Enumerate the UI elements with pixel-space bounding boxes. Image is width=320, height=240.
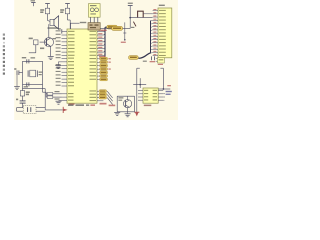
wire to U2 pin — [130, 17, 152, 19]
U2 designator — [159, 5, 165, 6]
power flag red bottom — [134, 112, 139, 116]
red text under serial — [100, 103, 107, 105]
wire rst top — [23, 88, 46, 90]
capacitor C3 electrolytic — [16, 99, 26, 108]
wire base down — [29, 45, 36, 53]
small part right — [158, 58, 165, 65]
IC U2 body — [158, 8, 172, 58]
speaker LS1 — [48, 16, 59, 29]
vertical caption text — [3, 34, 5, 75]
cap C1 gnd stub — [14, 68, 22, 89]
U3 right hooks — [163, 94, 165, 100]
wire U3 left power — [136, 85, 138, 113]
U2 pins — [153, 9, 166, 56]
bus ribbon curve — [138, 53, 150, 58]
resistor R1 — [40, 8, 49, 14]
wire xtal left — [22, 61, 24, 84]
wire xtal top — [23, 60, 43, 62]
wire drop B — [160, 68, 163, 89]
cap at U1 top-left — [59, 28, 62, 33]
U3 right pins — [153, 90, 164, 101]
power flag VCC1 — [31, 0, 36, 6]
component loop — [138, 11, 144, 17]
bus net label — [107, 25, 117, 29]
relay pins — [91, 17, 98, 22]
connector J1 — [88, 23, 100, 30]
resistor R2 — [60, 8, 69, 14]
diode mark — [131, 22, 136, 28]
U1 designator — [68, 104, 84, 106]
wire xtal bottom — [23, 83, 43, 85]
U1 left pin group 1 (P1.0-P1.7) — [56, 30, 75, 56]
wire rst vertical — [22, 84, 24, 101]
ground U1 GND pin — [56, 100, 62, 104]
wire Q1 emitter — [50, 46, 52, 56]
wire stub down — [121, 22, 127, 42]
wire U3 right net — [159, 85, 171, 90]
bus line — [105, 27, 107, 58]
wire xtal right — [42, 61, 44, 92]
ground Q1 — [48, 57, 54, 60]
button S1 — [23, 106, 36, 114]
net label mid right — [129, 56, 147, 62]
wire label to bus — [123, 27, 131, 29]
U1 right pin group 1 (P0 bus) — [90, 30, 104, 56]
U1 left pin group 3 (XTAL,GND) — [62, 93, 74, 101]
capacitor C1 — [22, 57, 35, 63]
bus hooks — [104, 31, 105, 56]
power bar — [45, 3, 50, 5]
power flag top right — [128, 3, 133, 6]
U3 designator — [144, 105, 152, 107]
wire W1 — [47, 4, 49, 21]
red text under connector — [102, 30, 107, 31]
wire U1 top xtal label — [71, 22, 87, 29]
wire W2 — [48, 20, 51, 23]
crystal Y1 — [28, 70, 42, 77]
wire vertical vcc right — [129, 6, 131, 29]
wire W3 — [48, 24, 50, 37]
ground loop left — [114, 112, 120, 115]
net label beep — [112, 26, 123, 30]
wire to vcc arrow — [45, 109, 63, 111]
wire loop to U2 pin2 — [143, 13, 152, 15]
loop rect — [117, 96, 134, 112]
ground on EA pin — [55, 62, 61, 69]
wire W4 — [68, 4, 71, 29]
resistor R4 — [20, 91, 30, 96]
resistor pack marks — [150, 56, 156, 62]
U2 pin hook bundle — [151, 20, 153, 53]
U1 right pin group 3 (serial) — [90, 90, 107, 101]
capacitor C2 — [24, 82, 29, 87]
wire from connector — [100, 27, 111, 29]
transistor Q2 — [124, 96, 132, 112]
red text serial — [109, 105, 116, 107]
U1 designator red marks — [86, 104, 95, 106]
wire pair — [156, 59, 158, 62]
wire rst right vertical — [44, 89, 46, 110]
wire U3 top — [133, 78, 146, 88]
U1 left pin group 2 (control) — [56, 57, 74, 86]
wire s1 left — [17, 108, 24, 112]
transistor Q1 — [40, 38, 56, 49]
tiny text loop — [118, 97, 123, 101]
white margin strip — [0, 0, 14, 121]
U3 left pins — [138, 90, 148, 101]
red text AD0-7 — [99, 56, 106, 58]
serial diagonal wires — [107, 91, 112, 104]
blue text right — [166, 91, 172, 95]
power bar 2 — [65, 3, 70, 5]
wire s1 right — [36, 108, 45, 112]
junction — [129, 17, 131, 19]
IC U3 body — [143, 88, 158, 103]
wire drop A — [137, 68, 140, 84]
schematic background — [13, 0, 178, 120]
U1 right pin group 2 with net labels — [90, 57, 111, 81]
ground Q2 — [125, 112, 131, 117]
wire xtal1 — [43, 91, 62, 95]
wire xtal2 — [46, 94, 61, 100]
MCU U1 body — [67, 29, 97, 103]
resistor R3 base — [29, 38, 47, 45]
power port arrow — [63, 103, 74, 113]
relay K1 body — [89, 4, 101, 18]
